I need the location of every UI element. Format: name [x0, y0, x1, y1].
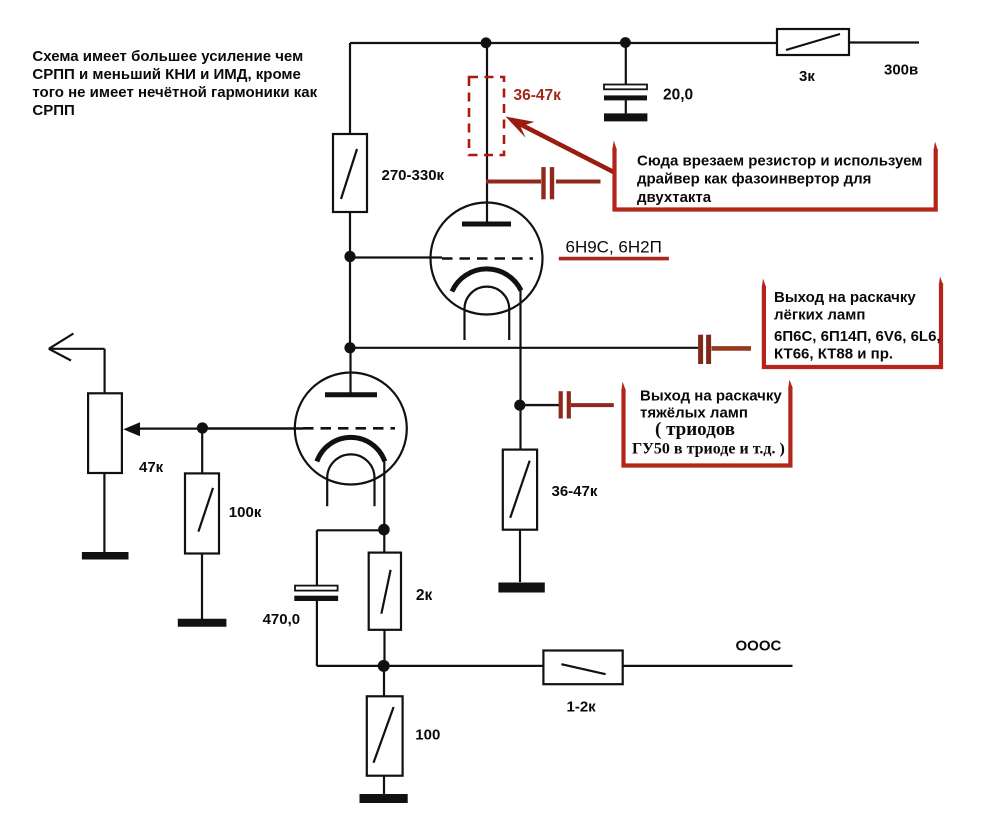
- svg-text:Схема имеет большее усиление ч: Схема имеет большее усиление чем: [32, 48, 303, 65]
- svg-text:Сюда врезаем резистор и исполь: Сюда врезаем резистор и используем: [637, 153, 922, 170]
- svg-text:того не имеет нечётной гармони: того не имеет нечётной гармоники как: [32, 84, 317, 101]
- svg-text:( триодов: ( триодов: [655, 419, 735, 440]
- svg-text:КТ66, КТ88 и пр.: КТ66, КТ88 и пр.: [774, 346, 893, 363]
- svg-text:100: 100: [415, 726, 440, 743]
- svg-text:двухтакта: двухтакта: [637, 189, 712, 206]
- svg-text:20,0: 20,0: [663, 87, 693, 104]
- svg-text:300в: 300в: [884, 62, 918, 79]
- svg-text:6П6С, 6П14П, 6V6, 6L6,: 6П6С, 6П14П, 6V6, 6L6,: [774, 328, 941, 345]
- svg-text:драйвер как фазоинвертор для: драйвер как фазоинвертор для: [637, 171, 871, 188]
- svg-text:СРПП: СРПП: [32, 102, 74, 119]
- svg-text:лёгких ламп: лёгких ламп: [774, 307, 865, 324]
- svg-text:100к: 100к: [229, 504, 262, 521]
- svg-text:36-47к: 36-47к: [514, 87, 562, 104]
- svg-text:47к: 47к: [139, 459, 164, 476]
- svg-text:270-330к: 270-330к: [382, 167, 445, 184]
- svg-text:2к: 2к: [416, 587, 433, 604]
- svg-text:ГУ50 в триоде и т.д. ): ГУ50 в триоде и т.д. ): [632, 441, 785, 458]
- svg-text:6Н9С, 6Н2П: 6Н9С, 6Н2П: [566, 238, 662, 257]
- svg-text:ОООС: ОООС: [736, 638, 782, 655]
- svg-text:3к: 3к: [799, 68, 815, 85]
- svg-text:СРПП и меньший КНИ и ИМД, кром: СРПП и меньший КНИ и ИМД, кроме: [32, 66, 300, 83]
- svg-text:Выход на раскачку: Выход на раскачку: [774, 289, 916, 306]
- svg-text:Выход на раскачку: Выход на раскачку: [640, 387, 782, 404]
- svg-text:36-47к: 36-47к: [552, 483, 598, 500]
- svg-text:470,0: 470,0: [263, 611, 301, 628]
- svg-text:1-2к: 1-2к: [567, 698, 597, 715]
